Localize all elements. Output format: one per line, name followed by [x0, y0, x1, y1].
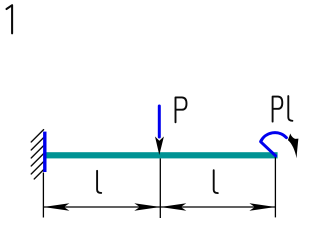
wall hatching: [31, 130, 43, 179]
dimension label l (left span): [97, 171, 101, 193]
dimension arrow mid-right (points right): [134, 203, 160, 211]
extension line right: [274, 156, 276, 217]
extension line left: [42, 173, 44, 218]
moment arrowhead: [288, 134, 299, 159]
dimension line: [43, 206, 275, 208]
force P line (blue): [158, 106, 161, 137]
beam (teal): [44, 152, 278, 158]
label Pl : P: [273, 97, 283, 122]
dimension arrow left (points left): [43, 203, 69, 211]
label Pl : l: [288, 96, 292, 121]
force P arrowhead: [155, 137, 164, 156]
dimension arrow mid-left (points left): [160, 203, 186, 211]
moment arc (blue): [261, 133, 287, 156]
label 1 (figure number): [7, 5, 13, 33]
label P: [176, 97, 187, 122]
dimension label l (right span): [214, 170, 218, 193]
fixed support line (blue): [43, 132, 46, 172]
extension line middle: [159, 158, 161, 218]
dimension arrow right (points right): [249, 203, 275, 211]
